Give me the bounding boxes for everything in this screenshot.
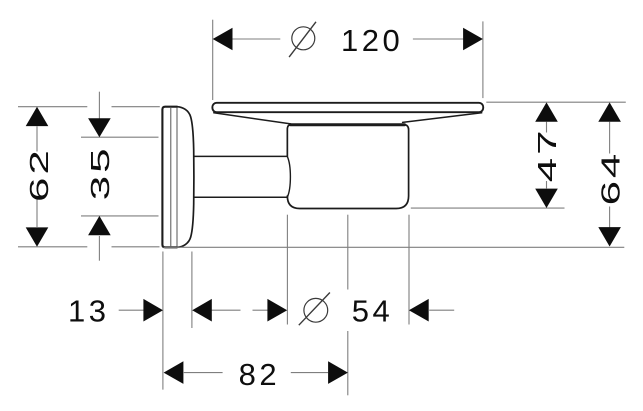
- arrow 13 right (points left): [192, 299, 212, 322]
- ext line cup left x287: [286, 215, 288, 325]
- arrow 62 down: [26, 227, 49, 246]
- ext tick 47 bottom: [411, 207, 565, 209]
- ext line dia120 left: [212, 20, 214, 100]
- arrow 35 bottom (points up): [88, 216, 111, 235]
- dim line 35: [98, 92, 100, 119]
- arrow 62 up: [26, 107, 49, 126]
- arrow 35 top (points down): [88, 118, 111, 137]
- arrow 13 left (points right): [143, 299, 163, 322]
- svg-text:47: 47: [532, 128, 562, 183]
- dish underside slant right: [403, 113, 482, 123]
- arrow 82 left: [164, 361, 184, 384]
- svg-text:35: 35: [85, 146, 115, 201]
- cup top rim line (thicker): [291, 123, 405, 126]
- ext tick 62 top: [18, 106, 87, 108]
- arrow 64 up: [598, 102, 621, 121]
- arrow dia120 left: [213, 28, 233, 51]
- long baseline under object (64 bottom): [164, 246, 625, 248]
- dim line 13 row: [119, 309, 144, 311]
- dim line 64: [609, 122, 611, 154]
- arrow 47 up: [535, 102, 558, 121]
- ext line dia120 right: [482, 21, 484, 98]
- svg-text:62: 62: [24, 147, 54, 202]
- svg-text:120: 120: [341, 23, 403, 58]
- ext tick 35 top: [81, 136, 159, 138]
- centerline of cup lower part: [347, 331, 349, 395]
- centerline of cup upper part: [347, 215, 349, 290]
- soap cup body: [287, 124, 408, 208]
- dim line dia120: [233, 38, 281, 40]
- ext line top right (47/64 top): [486, 101, 626, 103]
- svg-text:13: 13: [68, 293, 109, 328]
- arrow 82 right: [328, 361, 348, 384]
- arrow dia54 right (points left): [409, 299, 429, 322]
- ext tick 35 bottom: [81, 215, 159, 217]
- arrow 47 down: [535, 189, 558, 208]
- wall plate inner line 2: [176, 107, 178, 247]
- arm top line: [194, 155, 287, 157]
- arm bottom line: [194, 196, 287, 198]
- ext line plate front x192: [191, 252, 193, 329]
- wall plate inner line 1: [170, 107, 172, 246]
- ext line cup right x409: [408, 215, 410, 325]
- ext tick 62 bottom: [18, 246, 87, 248]
- arrow dia54 left (points right): [267, 299, 287, 322]
- dia symbol top: [292, 27, 315, 50]
- dia symbol bottom: [304, 298, 328, 322]
- dish plate: [212, 103, 483, 112]
- wall plate left face: [162, 107, 177, 248]
- dim line 62: [36, 126, 38, 151]
- arrow 64 down: [598, 227, 621, 246]
- arrow dia120 right: [463, 28, 483, 51]
- dim line 82: [184, 372, 223, 374]
- wall plate dome profile: [177, 107, 194, 248]
- dim tail dia54 right: [429, 309, 454, 311]
- ext line wall face x163: [162, 252, 164, 390]
- svg-text:54: 54: [352, 293, 393, 328]
- dish underside slant left: [214, 113, 291, 124]
- arm end cap bulge at cup: [287, 156, 290, 197]
- dim line 47: [546, 122, 548, 133]
- svg-text:64: 64: [595, 151, 625, 206]
- svg-text:82: 82: [239, 357, 280, 392]
